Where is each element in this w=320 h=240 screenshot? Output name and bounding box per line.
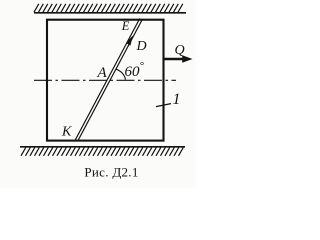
svg-text:A: A <box>97 65 108 81</box>
slider arrowhead at D <box>126 36 133 46</box>
svg-text:60: 60 <box>125 64 141 80</box>
60 degree arc <box>116 69 125 79</box>
svg-text:°: ° <box>140 60 145 72</box>
svg-text:Q: Q <box>175 43 185 58</box>
svg-text:Рис. Д2.1: Рис. Д2.1 <box>84 165 138 180</box>
svg-text:1: 1 <box>173 91 181 108</box>
svg-text:E: E <box>121 19 130 33</box>
force arrow Q <box>165 58 185 60</box>
leader tick for label 1 <box>156 104 171 107</box>
axis dash-dot line <box>34 79 176 81</box>
svg-text:D: D <box>136 39 147 54</box>
plate 1 (square frame) <box>47 20 164 141</box>
svg-text:K: K <box>61 125 72 140</box>
ceiling line <box>34 12 186 14</box>
ceiling hatching <box>34 4 183 12</box>
rod KE (double line) <box>75 18 142 141</box>
ground line <box>20 146 185 148</box>
ground hatching <box>21 147 183 155</box>
